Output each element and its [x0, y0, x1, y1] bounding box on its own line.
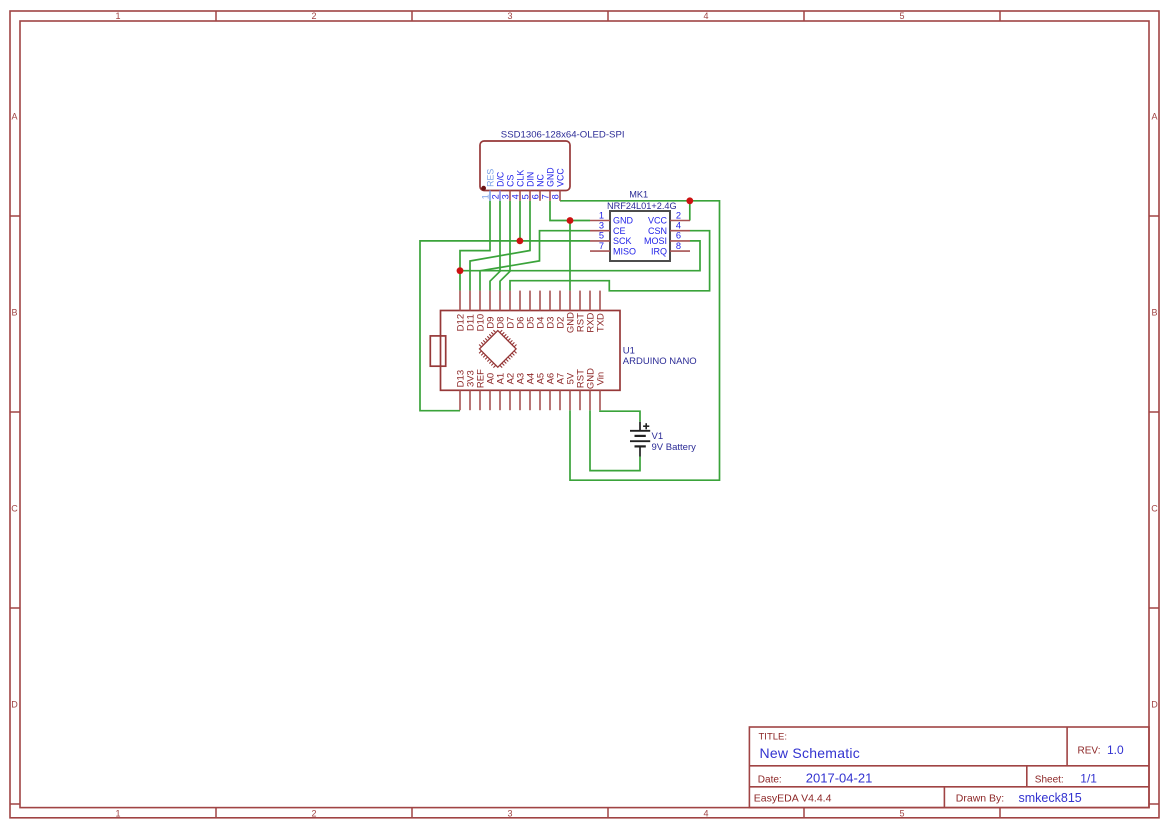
U1 bottom pin stub REF [479, 390, 481, 410]
OLED pin 1 stub [489, 191, 491, 201]
svg-text:7: 7 [540, 194, 550, 199]
svg-text:5: 5 [520, 194, 530, 199]
frame tick top [607, 11, 609, 21]
svg-text:V1: V1 [652, 431, 664, 442]
title block divider DrawnBy cell [943, 787, 945, 808]
frame tick bottom [607, 808, 609, 818]
svg-text:D: D [11, 700, 18, 710]
U1 top pin stub D9 [489, 291, 491, 311]
svg-text:D/C: D/C [496, 171, 506, 187]
svg-text:6: 6 [676, 231, 681, 241]
svg-text:5: 5 [899, 11, 904, 21]
frame tick bottom [803, 808, 805, 818]
svg-text:1: 1 [599, 210, 604, 220]
U1 top pin stub GND [569, 291, 571, 311]
svg-text:MK1: MK1 [629, 189, 648, 199]
OLED pin 7 stub [549, 191, 551, 201]
U1 bottom pin stub A5 [539, 390, 541, 410]
U1 top pin stub D6 [519, 291, 521, 311]
svg-text:5: 5 [899, 808, 904, 818]
U1 top pin stub D5 [529, 291, 531, 311]
svg-text:GND: GND [613, 216, 634, 226]
frame tick right [1149, 411, 1159, 413]
svg-text:VCC: VCC [556, 168, 566, 187]
wire VCC drop to MK1 pin2 [689, 201, 691, 221]
U1 top pin stub RXD [589, 291, 591, 311]
svg-text:2: 2 [311, 808, 316, 818]
svg-text:7: 7 [599, 241, 604, 251]
svg-text:SSD1306-128x64-OLED-SPI: SSD1306-128x64-OLED-SPI [501, 129, 625, 140]
MK1 pin 3 stub [590, 230, 610, 232]
wire CLK drop from OLED CLK to SCK net [519, 201, 521, 241]
svg-text:4: 4 [676, 221, 681, 231]
svg-text:2: 2 [676, 210, 681, 220]
svg-text:B: B [11, 308, 17, 318]
battery top terminal [639, 422, 641, 431]
battery plate long 2 [630, 440, 650, 442]
svg-text:Drawn By:: Drawn By: [956, 792, 1004, 804]
U1 top pin stub D11 [469, 291, 471, 311]
svg-text:NC: NC [536, 174, 546, 187]
svg-text:3: 3 [507, 808, 512, 818]
MK1 pin 7 stub [590, 250, 610, 252]
svg-text:NRF24L01+2.4G: NRF24L01+2.4G [607, 201, 677, 211]
svg-text:6: 6 [530, 194, 540, 199]
svg-text:4: 4 [703, 808, 708, 818]
junction dot VCC [686, 197, 693, 204]
svg-text:CE: CE [613, 226, 626, 236]
OLED pin 3 stub [509, 191, 511, 201]
frame tick top [999, 11, 1001, 21]
frame tick bottom [999, 808, 1001, 818]
svg-text:Date:: Date: [758, 774, 782, 785]
svg-text:GND: GND [546, 167, 556, 187]
title block outline [749, 727, 1149, 808]
U1 USB connector rectangle [430, 336, 445, 366]
OLED pin 8 stub [559, 191, 561, 201]
MK1 pin 4 stub [670, 230, 690, 232]
wire SCK net: MK1 SCK left loop to D13 [420, 241, 590, 411]
svg-text:2: 2 [311, 11, 316, 21]
frame tick bottom [411, 808, 413, 818]
svg-text:8: 8 [676, 241, 681, 251]
U1 bottom pin stub A1 [499, 390, 501, 410]
wire CS net: OLED CS diagonal to D8 [500, 201, 510, 291]
svg-text:IRQ: IRQ [651, 246, 667, 256]
U1 bottom pin stub A3 [519, 390, 521, 410]
svg-text:C: C [11, 504, 18, 514]
svg-text:REV:: REV: [1078, 746, 1101, 757]
frame tick right [1149, 803, 1159, 805]
U1 bottom pin stub RST [579, 390, 581, 410]
MK1 NRF24L01 body [610, 211, 670, 261]
OLED pin 2 stub [499, 191, 501, 201]
OLED module SSD1306 body [480, 141, 570, 191]
svg-text:5: 5 [599, 231, 604, 241]
frame tick right [1149, 607, 1159, 609]
svg-text:U1: U1 [623, 345, 635, 356]
svg-text:EasyEDA V4.4.4: EasyEDA V4.4.4 [754, 792, 832, 804]
wire MOSI net: MK1 MOSI to junction at D12 column [460, 241, 700, 271]
title block divider row1 [749, 765, 1149, 767]
U1 top pin stub D3 [549, 291, 551, 311]
U1 bottom pin stub GND [589, 390, 591, 410]
svg-text:1: 1 [115, 11, 120, 21]
U1 chip diamond symbol [480, 331, 517, 368]
OLED pin 4 stub [519, 191, 521, 201]
OLED pin 6 stub [539, 191, 541, 201]
U1 bottom pin stub A4 [529, 390, 531, 410]
U1 bottom pin stub A6 [549, 390, 551, 410]
frame tick left [10, 803, 20, 805]
svg-text:SCK: SCK [613, 236, 632, 246]
battery plate long 1 [630, 430, 650, 432]
svg-text:9V Battery: 9V Battery [652, 442, 697, 453]
U1 top pin stub TXD [599, 291, 601, 311]
junction dot MOSI/RES/D12 [457, 267, 464, 274]
frame tick left [10, 215, 20, 217]
svg-text:MISO: MISO [613, 246, 636, 256]
MK1 pin 6 stub [670, 240, 690, 242]
svg-text:CSN: CSN [648, 226, 667, 236]
svg-text:RES: RES [486, 169, 496, 187]
wire CSN net: MK1 CSN loop to D7 [510, 231, 710, 291]
frame tick left [10, 607, 20, 609]
svg-text:VCC: VCC [648, 216, 668, 226]
svg-text:ARDUINO NANO: ARDUINO NANO [623, 356, 697, 367]
svg-text:D: D [1151, 700, 1158, 710]
U1 chip diamond pin hatches [479, 330, 516, 367]
wire D/C net: OLED D/C diagonal to D9 [490, 201, 500, 291]
svg-text:DIN: DIN [526, 172, 536, 187]
frame tick left [10, 411, 20, 413]
MK1 pin 8 stub [670, 250, 690, 252]
U1 top pin stub D2 [559, 291, 561, 311]
wire CE net: MK1 CE diagonal to D10 [480, 231, 590, 291]
svg-text:4: 4 [703, 11, 708, 21]
battery plate short 1 [635, 435, 646, 437]
U1 top pin stub D7 [509, 291, 511, 311]
svg-text:2017-04-21: 2017-04-21 [806, 771, 873, 786]
frame tick top [803, 11, 805, 21]
svg-text:A: A [11, 112, 17, 122]
wire GND net: OLED GND to MK1 GND [550, 201, 590, 221]
svg-text:TXD: TXD [596, 313, 607, 332]
U1 bottom pin stub D13 [459, 390, 461, 410]
OLED pin1 origin dot [481, 186, 486, 191]
U1 bottom pin stub A7 [559, 390, 561, 410]
battery plate short 2 [635, 445, 646, 447]
MK1 pin 1 stub [590, 220, 610, 222]
svg-text:C: C [1151, 504, 1158, 514]
wire Vin to battery plus [600, 410, 640, 422]
U1 bottom pin stub A0 [489, 390, 491, 410]
U1 bottom pin stub 3V3 [469, 390, 471, 410]
svg-text:B: B [1151, 308, 1157, 318]
U1 top pin stub D8 [499, 291, 501, 311]
U1 top pin stub D4 [539, 291, 541, 311]
svg-text:1: 1 [480, 194, 490, 199]
svg-text:TITLE:: TITLE: [759, 732, 788, 743]
svg-text:1.0: 1.0 [1107, 743, 1124, 757]
U1 bottom pin stub Vin [599, 390, 601, 410]
battery plus sign horizontal [643, 425, 649, 427]
svg-text:MOSI: MOSI [644, 236, 667, 246]
frame tick bottom [215, 808, 217, 818]
wire battery minus to GND pin [590, 410, 640, 470]
junction dot SCK/CLK [517, 238, 524, 245]
frame tick top [411, 11, 413, 21]
U1 bottom pin stub 5V [569, 390, 571, 410]
svg-text:3: 3 [500, 194, 510, 199]
svg-text:CLK: CLK [516, 170, 526, 187]
wire RES net: OLED RES to D12 [460, 201, 490, 291]
title block divider REV cell [1066, 727, 1068, 766]
title block divider Sheet cell [1026, 766, 1028, 787]
U1 top pin stub D12 [459, 291, 461, 311]
svg-text:CS: CS [506, 175, 516, 187]
svg-text:A: A [1151, 112, 1157, 122]
svg-text:New Schematic: New Schematic [760, 745, 861, 761]
U1 top pin stub RST [579, 291, 581, 311]
frame tick top [215, 11, 217, 21]
wire DIN net: OLED DIN diagonal to D11 [470, 201, 530, 291]
title block divider row2 [749, 786, 1149, 788]
svg-text:Vin: Vin [596, 372, 607, 386]
MK1 pin 5 stub [590, 240, 610, 242]
U1 bottom pin stub A2 [509, 390, 511, 410]
MK1 pin 2 stub [670, 220, 690, 222]
svg-text:smkeck815: smkeck815 [1019, 791, 1082, 805]
junction dot GND [567, 217, 574, 224]
svg-text:3: 3 [507, 11, 512, 21]
svg-text:1/1: 1/1 [1080, 772, 1097, 786]
U1 Arduino Nano body [441, 311, 621, 391]
svg-text:Sheet:: Sheet: [1035, 774, 1064, 785]
battery plus sign vertical [645, 423, 647, 429]
svg-text:4: 4 [510, 194, 520, 199]
U1 top pin stub D10 [479, 291, 481, 311]
svg-text:8: 8 [550, 194, 560, 199]
svg-text:2: 2 [490, 194, 500, 199]
svg-text:3: 3 [599, 221, 604, 231]
wire GND branch to U1 GND top pin [569, 221, 571, 291]
battery bottom terminal [639, 446, 641, 456]
frame tick right [1149, 215, 1159, 217]
svg-text:1: 1 [115, 808, 120, 818]
OLED pin 5 stub [529, 191, 531, 201]
wire VCC net: OLED VCC to right loop to 5V pin [560, 201, 720, 480]
